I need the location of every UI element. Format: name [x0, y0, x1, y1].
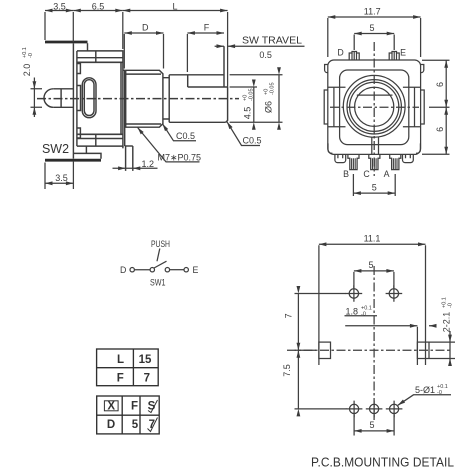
- svg-text:SW2: SW2: [42, 141, 69, 156]
- text dia6 tol: [264, 82, 276, 113]
- svg-text:5: 5: [368, 260, 373, 270]
- bracket top tab: [45, 41, 88, 44]
- svg-text:7.5: 7.5: [282, 364, 292, 377]
- svg-text:L: L: [117, 354, 124, 366]
- svg-text:-0: -0: [361, 312, 366, 318]
- push actuator line: [157, 249, 160, 262]
- dim 2.0: [31, 78, 43, 118]
- dim 5 top: [354, 34, 394, 51]
- svg-text:11.1: 11.1: [364, 233, 381, 243]
- corner tab bottom-left: [328, 143, 332, 153]
- arrowheads side view: [33, 9, 281, 186]
- side view centerline: [37, 98, 239, 100]
- boss circles: [343, 75, 405, 137]
- svg-text:7: 7: [284, 313, 294, 318]
- svg-text:2-2.1: 2-2.1: [442, 312, 452, 333]
- svg-text:5: 5: [132, 419, 139, 431]
- svg-text:2.0: 2.0: [22, 64, 32, 77]
- neck: [163, 78, 169, 119]
- check mark over S: [148, 400, 158, 413]
- washer: [123, 70, 126, 146]
- svg-text:3.5: 3.5: [55, 173, 68, 183]
- pivot circle: [150, 268, 154, 272]
- svg-text:-0: -0: [28, 53, 34, 58]
- dim 6 6 right: [445, 60, 447, 154]
- dim 7.5 left: [295, 350, 347, 409]
- bottom hole B: [350, 404, 359, 413]
- bracket foot block: [85, 146, 87, 153]
- pin B: [348, 154, 359, 169]
- side view texts: [22, 1, 302, 183]
- bottom hole A: [390, 404, 399, 413]
- side ear left: [324, 90, 328, 124]
- front view centerlines: [373, 42, 375, 176]
- svg-text:-0: -0: [437, 390, 442, 396]
- oval slot outer: [82, 78, 96, 118]
- shaft: [168, 75, 170, 123]
- pin E: [389, 52, 399, 61]
- svg-text:15: 15: [139, 354, 152, 366]
- svg-text:M7∗P0.75: M7∗P0.75: [158, 153, 202, 163]
- sw travel line: [223, 46, 225, 87]
- pin D: [349, 52, 359, 61]
- dim 1.2: [113, 167, 158, 169]
- center support below boss: [372, 137, 379, 154]
- svg-text:1.2: 1.2: [142, 159, 155, 169]
- terminal D circle: [130, 268, 134, 272]
- bushing M7: [126, 70, 163, 127]
- check mark over 7: [148, 418, 158, 432]
- pcb centerline vertical: [373, 266, 375, 420]
- svg-text:C: C: [363, 169, 370, 179]
- svg-text:4.5: 4.5: [243, 107, 253, 120]
- sw travel leader: [215, 45, 305, 47]
- pcb centerline slots: [287, 349, 450, 351]
- dim 2-2.1: [430, 331, 456, 366]
- svg-text:F: F: [131, 401, 138, 413]
- dim 5 pcb top: [354, 271, 394, 288]
- svg-text:-0.05: -0.05: [270, 82, 276, 95]
- contact circle: [165, 268, 169, 272]
- svg-text:SW1: SW1: [150, 278, 166, 288]
- text 4.5 tol: [243, 88, 255, 119]
- table XFS border: [97, 396, 160, 434]
- leader C0.5 bushing: [163, 124, 197, 141]
- svg-text:C0.5: C0.5: [243, 136, 262, 146]
- text 2.0 tol: [22, 47, 34, 76]
- slot right: [417, 342, 429, 358]
- front body outline: [328, 60, 421, 154]
- mounting leg left: [335, 154, 346, 162]
- text 2-2.1 tol: [442, 297, 454, 332]
- corner tab bottom-right: [416, 143, 420, 153]
- corner tab top-left: [325, 65, 328, 73]
- dim 5 bottom: [353, 174, 395, 196]
- front view dimensions: [328, 17, 450, 196]
- dim 6.5 top: [73, 11, 123, 50]
- dim 4.5 shaft: [230, 87, 257, 122]
- leader M7: [138, 127, 200, 161]
- dim 3.5 bottom: [45, 161, 73, 189]
- dim 1.8: [345, 316, 437, 365]
- dim L top: [123, 11, 228, 88]
- bracket notch bottom: [77, 128, 81, 138]
- box around X: [104, 401, 118, 411]
- dim F: [187, 33, 224, 72]
- svg-text:D: D: [107, 419, 115, 431]
- svg-text:D: D: [337, 48, 343, 58]
- push plunger SW2: [53, 89, 73, 108]
- bottom hole C: [370, 404, 379, 413]
- shaft flat chord: [357, 94, 393, 96]
- wire D: [134, 269, 150, 271]
- svg-text:6.5: 6.5: [92, 1, 105, 11]
- svg-text:PUSH: PUSH: [151, 239, 170, 249]
- svg-text:P.C.B.MOUNTING DETAIL: P.C.B.MOUNTING DETAIL: [311, 456, 454, 470]
- side ear right: [421, 90, 425, 124]
- svg-text:D: D: [142, 22, 149, 32]
- svg-text:3.5: 3.5: [53, 1, 66, 11]
- svg-text:6: 6: [435, 82, 445, 87]
- svg-text:E: E: [193, 265, 199, 275]
- dim dia6 shaft: [230, 75, 283, 123]
- dim 11.7: [328, 17, 421, 57]
- terminal E circle: [184, 268, 188, 272]
- svg-text:0.5: 0.5: [259, 50, 272, 60]
- svg-text:5: 5: [369, 23, 374, 33]
- bracket bottom tab: [45, 159, 101, 162]
- svg-text:Ø6: Ø6: [264, 101, 274, 113]
- mounting leg right: [403, 154, 414, 162]
- svg-text:A: A: [384, 169, 390, 179]
- dim 11.1: [319, 244, 426, 365]
- bracket notch top: [77, 64, 81, 74]
- wire E: [170, 269, 184, 271]
- svg-text:7: 7: [144, 372, 150, 384]
- saddle lines: [328, 87, 346, 126]
- table L/F border: [97, 349, 159, 386]
- switch arm: [154, 261, 167, 268]
- svg-text:5: 5: [369, 420, 374, 430]
- svg-text:1.8: 1.8: [346, 306, 359, 316]
- svg-text:L: L: [172, 1, 177, 11]
- hole E pcb: [389, 289, 398, 298]
- dim 7 left: [295, 294, 347, 351]
- bracket plate: [72, 43, 74, 158]
- svg-text:F: F: [204, 22, 210, 32]
- svg-text:6: 6: [435, 127, 445, 132]
- svg-text:5: 5: [372, 182, 377, 192]
- svg-text:E: E: [400, 48, 406, 58]
- leader 5-dia1: [398, 395, 451, 406]
- corner tab top-right: [421, 65, 424, 73]
- pin A: [390, 154, 401, 169]
- inner cover outline: [340, 70, 409, 145]
- svg-text:B: B: [343, 169, 349, 179]
- svg-text:-0.05: -0.05: [249, 88, 255, 101]
- svg-text:F: F: [117, 372, 124, 384]
- dim D: [124, 33, 163, 69]
- leader C0.5 shaft: [227, 122, 260, 146]
- body outline: [77, 51, 123, 146]
- svg-text:SW TRAVEL: SW TRAVEL: [242, 36, 302, 47]
- pin C: [369, 154, 380, 169]
- oval slot inner: [84, 80, 94, 116]
- svg-text:C0.5: C0.5: [176, 131, 195, 141]
- svg-text:5-Ø1: 5-Ø1: [415, 385, 435, 395]
- svg-text:X: X: [107, 401, 115, 413]
- dim 3.5 top: [45, 11, 73, 43]
- svg-text:D: D: [120, 265, 126, 275]
- svg-text:11.7: 11.7: [364, 7, 381, 17]
- svg-text:-0: -0: [448, 303, 454, 308]
- dim 5 pcb bottom: [354, 415, 394, 436]
- mounting lug: [125, 145, 133, 147]
- slot left: [319, 342, 331, 358]
- hole D pcb: [349, 289, 358, 298]
